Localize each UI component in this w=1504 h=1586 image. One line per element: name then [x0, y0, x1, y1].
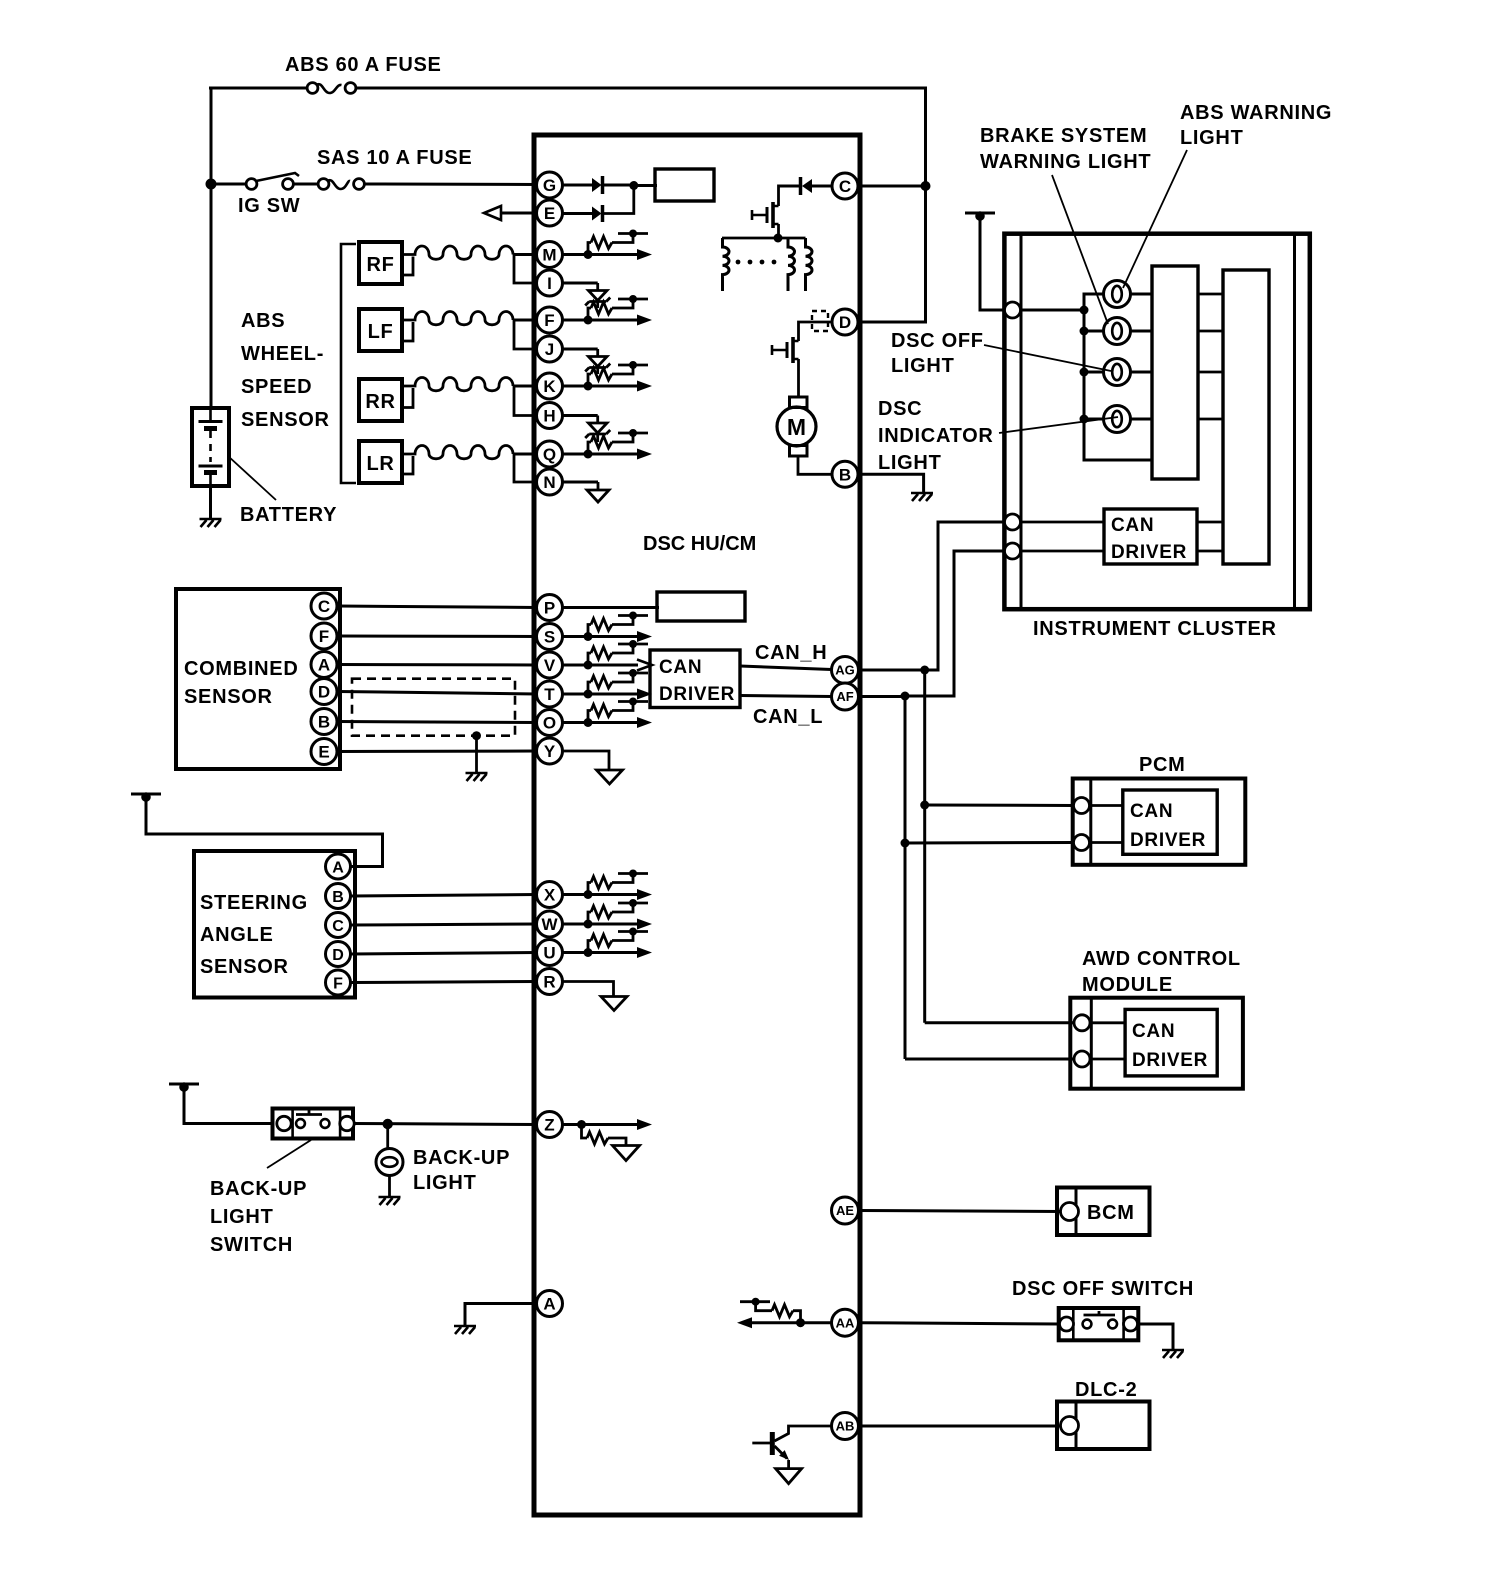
module: BCM box: [1057, 1188, 1150, 1236]
battery BT1: [192, 408, 229, 486]
sensor LF (left front): [359, 309, 402, 351]
svg-text:ABS: ABS: [241, 310, 285, 332]
pin B (steering angle sensor): [326, 884, 351, 909]
leader line: brake system warning light: [1052, 175, 1108, 324]
wire: cluster CAN driver to micro 1: [1197, 521, 1223, 524]
wire: pin AG to CAN_H bus: [859, 669, 926, 672]
ground: R row signal ground: [601, 997, 627, 1011]
ground: pin A chassis ground: [454, 1326, 476, 1334]
ground: back-up light chassis ground: [379, 1197, 401, 1205]
svg-text:INSTRUMENT CLUSTER: INSTRUMENT CLUSTER: [1033, 618, 1277, 640]
lamp: DSC indicator light: [1104, 406, 1131, 433]
junction: CAN_L bus node: [901, 692, 910, 701]
pin F (DSC HU/CM): [537, 307, 563, 333]
connector: cluster pin 3: [1005, 543, 1021, 559]
sensor LR (left rear): [359, 441, 402, 483]
svg-text:A: A: [318, 656, 330, 675]
module: PCM box: [1073, 779, 1246, 865]
connector strip: cluster right: [1293, 234, 1296, 610]
wire: Q2 source to motor: [797, 359, 800, 398]
wire: pin P row to logic box: [562, 606, 659, 609]
svg-text:E: E: [544, 204, 555, 223]
svg-text:Z: Z: [544, 1116, 554, 1135]
svg-text:H: H: [543, 407, 555, 426]
connector: AWD pin 1: [1074, 1015, 1090, 1031]
wire: combined sensor E to Y: [338, 750, 538, 754]
svg-text:M: M: [542, 246, 556, 265]
svg-text:DSC HU/CM: DSC HU/CM: [643, 533, 756, 555]
connector strip: AWD: [1090, 998, 1093, 1089]
svg-text:DRIVER: DRIVER: [659, 684, 735, 705]
resistor: AA pull-up: [793, 1311, 801, 1323]
pin C (steering angle sensor): [326, 913, 351, 938]
svg-text:A: A: [332, 859, 344, 876]
pin K (DSC HU/CM): [537, 373, 563, 399]
resistor/arrow network: pin U row: [562, 951, 638, 954]
lamp: BACK-UP LIGHT bulb: [376, 1149, 403, 1176]
wire: supply to steering sensor pin A: [146, 797, 383, 867]
wire: pin C row to diode: [812, 185, 832, 188]
wire: CAN_L to AWD control module: [905, 1058, 1074, 1061]
svg-text:C: C: [318, 597, 330, 616]
svg-text:B: B: [318, 713, 330, 732]
dashed connector mark at pin D: [812, 311, 828, 331]
sensor RF (ABS wheel-speed, right front): [359, 242, 402, 284]
svg-text:AE: AE: [836, 1203, 854, 1218]
wire: cluster CAN_H internal: [1021, 521, 1104, 524]
junction: battery / IG SW node: [206, 179, 217, 190]
svg-text:COMBINED: COMBINED: [184, 658, 299, 680]
pin A (combined sensor): [311, 652, 337, 678]
wire: feed to back-up light switch: [184, 1086, 274, 1124]
pin B (DSC HU/CM): [832, 461, 858, 487]
wire: steering sensor F to R: [351, 982, 538, 983]
pin E (DSC HU/CM): [537, 200, 563, 226]
pin A (steering angle sensor): [326, 854, 351, 879]
wire: shield drain to ground: [475, 736, 478, 772]
svg-text:F: F: [333, 975, 343, 992]
connector strip: cluster left: [1020, 234, 1023, 610]
wire: CAN_H to AWD control module: [925, 1021, 1074, 1024]
svg-text:F: F: [319, 627, 329, 646]
svg-text:ABS 60 A FUSE: ABS 60 A FUSE: [285, 54, 442, 76]
wire: CAN_H from driver to pin AG: [740, 666, 832, 670]
svg-text:B: B: [332, 889, 344, 906]
svg-text:WHEEL-: WHEEL-: [241, 343, 324, 365]
svg-text:W: W: [541, 915, 558, 934]
leader line: DSC off light: [984, 345, 1111, 371]
wire: CAN_H bus to instrument cluster: [925, 522, 1006, 670]
solenoid coil L3: [806, 238, 813, 291]
wire: top feed to ABS fuse: [209, 87, 307, 90]
transistor Q3 (AB row, K-line driver): [770, 1432, 775, 1455]
wire: node to IG SW: [211, 183, 246, 186]
svg-text:CAN: CAN: [1132, 1021, 1175, 1042]
wire: pin AF to CAN_L bus: [859, 695, 906, 698]
svg-text:D: D: [839, 313, 851, 332]
wire: lamp1 to driver block: [1131, 293, 1153, 296]
svg-text:D: D: [318, 683, 330, 702]
svg-text:I: I: [547, 274, 552, 293]
wire: PCM pin2 to CAN driver: [1091, 841, 1123, 844]
pin C (DSC HU/CM): [832, 173, 858, 199]
resistor/arrow network: pin Q row: [562, 453, 638, 456]
svg-text:S: S: [544, 628, 555, 647]
sensor RR (right rear): [359, 379, 402, 421]
wire: cluster CAN driver to micro 2: [1197, 550, 1223, 553]
svg-text:BACK-UP: BACK-UP: [210, 1178, 307, 1200]
svg-text:ANGLE: ANGLE: [200, 924, 274, 946]
block: cluster lamp driver: [1152, 266, 1198, 479]
wire: C node down to pin D: [859, 186, 926, 322]
svg-text:CAN: CAN: [659, 657, 702, 678]
can transceiver: CAN DRIVER (cluster): [1104, 509, 1197, 564]
wire: CAN_L from driver to pin AF: [740, 696, 832, 697]
svg-text:D: D: [332, 947, 344, 964]
module: STEERING ANGLE SENSOR box: [194, 851, 355, 998]
svg-text:LF: LF: [368, 321, 394, 343]
wire: combined sensor A to V: [338, 663, 538, 667]
power stub: instrument cluster supply: [965, 212, 995, 215]
svg-text:LR: LR: [366, 453, 394, 475]
svg-text:WARNING LIGHT: WARNING LIGHT: [980, 151, 1151, 173]
diode D1 (pin G row): [562, 184, 592, 187]
wire: pin AE to BCM: [859, 1211, 1062, 1212]
resistor/arrow network: pin O row: [562, 721, 638, 724]
svg-text:F: F: [544, 311, 554, 330]
svg-text:AF: AF: [836, 689, 853, 704]
junction: Z row node: [577, 1120, 586, 1129]
svg-text:A: A: [543, 1295, 555, 1314]
svg-text:AA: AA: [836, 1315, 855, 1330]
junction: C node (to ABS fuse feed): [921, 181, 931, 191]
svg-text:ABS WARNING: ABS WARNING: [1180, 102, 1332, 124]
svg-text:G: G: [543, 176, 556, 195]
connector: PCM pin 1: [1074, 798, 1090, 814]
wire: combined sensor C to P: [338, 606, 538, 608]
can transceiver: CAN DRIVER (AWD): [1125, 1009, 1217, 1076]
wire: lamp3 feed: [1084, 371, 1104, 374]
svg-text:SWITCH: SWITCH: [210, 1234, 293, 1256]
ground: battery chassis ground: [200, 519, 222, 527]
diode D3 (pin C row): [802, 179, 812, 193]
pin AG (DSC HU/CM): [832, 657, 859, 684]
wire: battery positive vertical line: [210, 88, 213, 408]
resistor/arrow network: pin M row: [562, 253, 638, 256]
pin I (DSC HU/CM): [537, 270, 563, 296]
wire: pin A to chassis ground: [465, 1304, 537, 1326]
junction: lamp bus node 4: [1080, 415, 1089, 424]
svg-text:B: B: [839, 465, 851, 484]
svg-text:O: O: [543, 714, 556, 733]
solenoid coil L1: [723, 238, 730, 291]
svg-text:DRIVER: DRIVER: [1111, 542, 1187, 563]
wire: lamp4 feed: [1084, 418, 1104, 421]
pin T (DSC HU/CM): [537, 681, 563, 707]
pin M (DSC HU/CM): [537, 242, 563, 268]
wire: CAN_L bus vertical: [904, 696, 907, 1059]
ground: shield chassis ground: [466, 773, 488, 781]
pin AB (DSC HU/CM): [832, 1413, 859, 1440]
solenoid bank dots: [736, 260, 741, 265]
shield: twisted pair shield (dashed): [352, 679, 515, 736]
connector: cluster pin 2: [1005, 514, 1021, 530]
wire: pin AB to DLC-2: [859, 1425, 1062, 1428]
power stub: back-up light feed: [169, 1083, 199, 1086]
module: INSTRUMENT CLUSTER box: [1004, 234, 1309, 610]
svg-text:V: V: [544, 656, 556, 675]
power stub: steering sensor supply: [131, 793, 161, 796]
svg-text:LIGHT: LIGHT: [413, 1172, 477, 1194]
wire: steering sensor D to U: [351, 953, 538, 955]
wire: CAN_L bus to instrument cluster: [905, 551, 1006, 696]
svg-text:U: U: [543, 944, 555, 963]
svg-text:DLC-2: DLC-2: [1075, 1379, 1137, 1401]
wire: node to back-up light: [386, 1124, 389, 1149]
pin H (DSC HU/CM): [537, 403, 563, 429]
svg-text:BCM: BCM: [1087, 1202, 1135, 1224]
wire: AWD pin2 to CAN driver: [1091, 1058, 1125, 1061]
pin W (DSC HU/CM): [537, 911, 563, 937]
svg-text:X: X: [544, 886, 556, 905]
wire: diode node to relay box: [634, 184, 657, 187]
can transceiver U2: CAN DRIVER (DSC): [650, 650, 740, 708]
pin C (combined sensor): [311, 593, 337, 619]
svg-text:BACK-UP: BACK-UP: [413, 1147, 510, 1169]
pin P (DSC HU/CM): [537, 595, 563, 621]
ground: pin B chassis ground: [911, 493, 933, 501]
wire: pin D to FET Q2: [799, 322, 832, 341]
svg-text:INDICATOR: INDICATOR: [878, 425, 994, 447]
svg-text:DRIVER: DRIVER: [1132, 1050, 1208, 1071]
leader line: back-up light switch label: [267, 1140, 311, 1168]
wire: pin AA to DSC off switch: [859, 1323, 1061, 1324]
wire: lamp bus: [1084, 294, 1152, 460]
arrow: Z row output: [637, 1119, 652, 1130]
pin B (combined sensor): [311, 709, 337, 735]
svg-text:P: P: [544, 599, 555, 618]
svg-text:SPEED: SPEED: [241, 376, 312, 398]
wire: lamp3 to driver block: [1131, 371, 1153, 374]
wire: lamp2 feed: [1084, 330, 1104, 333]
switch: IG SW: [246, 179, 257, 190]
module: AWD control module box: [1070, 998, 1243, 1089]
relay box (unlabeled) pin G row: [655, 169, 714, 201]
pin Y (DSC HU/CM): [537, 738, 563, 764]
wire: AWD pin1 to CAN driver: [1091, 1021, 1125, 1024]
junction: back-up light node: [383, 1119, 393, 1129]
wire: block link 1: [1198, 293, 1223, 296]
junction: solenoid bus node: [774, 234, 783, 243]
wire: CAN_H to PCM: [925, 804, 1074, 808]
pin O (DSC HU/CM): [537, 710, 563, 736]
wire: solenoid bus: [722, 237, 806, 240]
pin A (DSC HU/CM): [537, 1291, 563, 1317]
wire: pin C to C node: [859, 185, 926, 188]
wire: block link 3: [1198, 371, 1223, 374]
resistor/arrow network: pin F row: [562, 319, 638, 322]
pin AE (DSC HU/CM): [832, 1197, 859, 1224]
connector: PCM pin 2: [1074, 835, 1090, 851]
svg-text:BRAKE SYSTEM: BRAKE SYSTEM: [980, 125, 1147, 147]
lamp: brake system warning light: [1104, 318, 1131, 345]
ground: Z row signal ground: [613, 1146, 640, 1161]
svg-text:SENSOR: SENSOR: [241, 409, 330, 431]
wire: lamp4 to driver block: [1131, 418, 1153, 421]
wire: motor to pin B: [798, 456, 832, 474]
junction: CAN_L to PCM node: [901, 839, 910, 848]
svg-text:LIGHT: LIGHT: [1180, 127, 1244, 149]
junction: CAN_H bus node: [920, 666, 929, 675]
wire: switch to pin Z: [353, 1124, 537, 1125]
fuse F2: SAS 10 A: [318, 179, 329, 190]
wire: PCM pin1 to CAN driver: [1091, 804, 1123, 807]
arrow: pin AA external (to other circuit): [737, 1317, 752, 1328]
pin V (DSC HU/CM): [537, 652, 563, 678]
pin Q (DSC HU/CM): [537, 441, 563, 467]
connector: DLC-2 pin: [1061, 1417, 1079, 1435]
pin F (combined sensor): [311, 623, 337, 649]
connector: BCM pin: [1061, 1203, 1079, 1221]
svg-text:J: J: [545, 340, 554, 359]
resistor/arrow network: pin X row: [562, 893, 638, 896]
wire: block link 2: [1198, 330, 1223, 333]
junction: G/E diode node: [629, 181, 638, 190]
wire: block link 4: [1198, 418, 1223, 421]
wire: combined sensor D to T: [338, 692, 538, 695]
wire: pin B to chassis ground: [859, 474, 924, 492]
fuse F1: ABS 60 A: [307, 83, 318, 94]
svg-text:RR: RR: [365, 391, 395, 413]
junction: CAN_H to PCM node: [920, 801, 929, 810]
svg-text:IG SW: IG SW: [238, 195, 300, 217]
resistor/arrow network: pin W row: [562, 923, 638, 926]
svg-text:SENSOR: SENSOR: [184, 686, 273, 708]
svg-text:AB: AB: [836, 1419, 855, 1434]
leader line: DSC indicator light: [999, 417, 1118, 433]
zener diode: pin I row: [562, 282, 598, 285]
pin U (DSC HU/CM): [537, 940, 563, 966]
svg-text:PCM: PCM: [1139, 754, 1186, 776]
wire: SAS fuse to pin G: [364, 183, 537, 187]
pin N (DSC HU/CM): [537, 469, 563, 495]
svg-text:R: R: [543, 973, 555, 992]
bracket: sensor group: [341, 244, 356, 483]
pin J (DSC HU/CM): [537, 336, 563, 362]
svg-text:CAN: CAN: [1111, 515, 1154, 536]
ground: Q3 emitter signal ground: [776, 1469, 802, 1484]
svg-text:Y: Y: [544, 742, 556, 761]
pin X (DSC HU/CM): [537, 882, 563, 908]
wire: IG SW to SAS fuse: [293, 183, 318, 186]
wire: C diode to FET Q1: [777, 185, 780, 207]
wire: Q1 source to solenoid bus: [777, 224, 780, 238]
wire: cluster CAN_L internal: [1021, 550, 1104, 553]
svg-text:STEERING: STEERING: [200, 892, 308, 914]
svg-text:E: E: [318, 743, 329, 762]
svg-text:LIGHT: LIGHT: [878, 452, 942, 474]
svg-text:N: N: [543, 473, 555, 492]
pin AF (DSC HU/CM): [832, 683, 859, 710]
resistor/arrow network: pin V row: [562, 664, 638, 667]
switch: DSC OFF SWITCH: [1059, 1308, 1139, 1340]
svg-text:T: T: [544, 685, 555, 704]
wire: combined sensor B to O: [338, 722, 538, 723]
wire: ABS fuse to DSC C-node vertical: [355, 87, 926, 90]
svg-text:BATTERY: BATTERY: [240, 504, 337, 526]
arrow: pin E external (to other circuit): [484, 206, 501, 220]
svg-text:DSC OFF: DSC OFF: [891, 330, 984, 352]
pin E (combined sensor): [311, 739, 337, 765]
wire: RF twisted pair to pins M/I: [402, 257, 413, 276]
resistor/arrow network: pin S row: [562, 635, 638, 638]
power stub: AA pull-up rail: [740, 1300, 770, 1303]
connector strip: BCM: [1075, 1188, 1078, 1236]
wire: lamp2 to driver block: [1131, 330, 1153, 333]
wire: pin N row to signal ground: [562, 481, 598, 484]
motor M1: pump motor: [777, 407, 816, 446]
leader line: ABS warning light: [1123, 150, 1187, 288]
junction: lamp bus node 3: [1080, 368, 1089, 377]
can transceiver: CAN DRIVER (PCM): [1123, 790, 1217, 854]
pin D (DSC HU/CM): [832, 309, 858, 335]
lamp: DSC off light: [1104, 359, 1131, 386]
module U1: DSC HU/CM enclosure: [534, 135, 860, 1515]
wire: RR twisted pair to pins K/H: [402, 388, 413, 408]
svg-text:SAS 10 A FUSE: SAS 10 A FUSE: [317, 147, 472, 169]
svg-text:M: M: [787, 414, 806, 440]
zener diode: pin J row: [562, 348, 598, 351]
connector: AWD pin 2: [1074, 1051, 1090, 1067]
wire: CAN_H bus vertical: [923, 670, 926, 1023]
junction: lamp bus node 2: [1080, 327, 1089, 336]
svg-text:DRIVER: DRIVER: [1130, 830, 1206, 851]
pin S (DSC HU/CM): [537, 624, 563, 650]
svg-text:LIGHT: LIGHT: [891, 355, 955, 377]
diode D2 (pin E row): [562, 212, 592, 215]
wire: supply to cluster: [980, 216, 1006, 310]
svg-text:CAN_H: CAN_H: [755, 642, 827, 664]
pin D (combined sensor): [311, 679, 337, 705]
wire: Z row internal: [562, 1123, 638, 1126]
solenoid coil L2: [788, 238, 795, 291]
svg-text:MODULE: MODULE: [1082, 974, 1173, 996]
transistor Q1 (solenoid driver FET): [771, 202, 775, 228]
resistor: Z row pull-down: [582, 1125, 588, 1139]
connector strip: DLC-2: [1075, 1402, 1078, 1450]
wire: LF twisted pair to pins F/J: [402, 322, 413, 341]
block: cluster micro: [1223, 270, 1269, 564]
switch: BACK-UP LIGHT SWITCH: [273, 1109, 354, 1139]
svg-text:AWD CONTROL: AWD CONTROL: [1082, 948, 1241, 970]
svg-text:AG: AG: [835, 663, 855, 678]
pin G (DSC HU/CM): [537, 172, 563, 198]
junction: shield drain node: [472, 731, 481, 740]
svg-text:DSC OFF SWITCH: DSC OFF SWITCH: [1012, 1278, 1194, 1300]
wire: CAN_L to PCM: [905, 841, 1074, 845]
svg-text:LIGHT: LIGHT: [210, 1206, 274, 1228]
wire: DSC off switch to ground: [1138, 1324, 1173, 1349]
wire: steering sensor C to W: [351, 924, 538, 925]
svg-text:CAN: CAN: [1130, 801, 1173, 822]
pin F (steering angle sensor): [326, 970, 351, 995]
pin R (DSC HU/CM): [537, 969, 563, 995]
wire: back-up light to ground: [388, 1176, 391, 1197]
ground: Y row signal ground: [597, 770, 623, 784]
logic box (unlabeled) pin P row: [657, 592, 745, 621]
pin Z (DSC HU/CM): [537, 1112, 563, 1138]
junction: lamp bus feed node: [1080, 306, 1089, 315]
